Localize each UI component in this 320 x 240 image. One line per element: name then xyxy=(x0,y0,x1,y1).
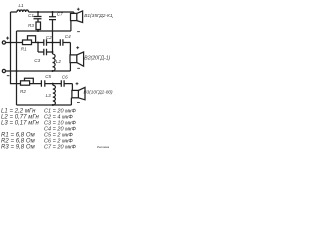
wire top rail xyxy=(11,12,74,13)
junction dots xyxy=(10,11,54,106)
svg-text:L3: L3 xyxy=(46,93,52,98)
svg-text:R2: R2 xyxy=(20,89,26,94)
svg-text:С2: С2 xyxy=(46,35,52,40)
wire B2 return riser xyxy=(69,63,71,71)
resistor R3 xyxy=(36,22,41,31)
capacitor C6 xyxy=(61,80,64,87)
speaker B2 xyxy=(70,46,84,68)
svg-text:С4: С4 xyxy=(65,34,71,39)
inductor L2 xyxy=(53,54,56,71)
svg-text:С7 = 20 мкФ: С7 = 20 мкФ xyxy=(44,145,77,151)
wire bottom return line xyxy=(17,98,72,105)
inductor L1 xyxy=(17,10,29,12)
resistor R1 with tap xyxy=(23,36,36,45)
node plus input terminal xyxy=(2,37,22,45)
capacitor C3 xyxy=(44,49,47,55)
svg-text:С5: С5 xyxy=(45,74,51,79)
speaker B1 xyxy=(71,8,83,32)
svg-text:С7: С7 xyxy=(57,11,63,16)
svg-text:В3(10ГД2-80): В3(10ГД2-80) xyxy=(84,89,114,94)
svg-text:L3 = 0,17 мГн: L3 = 0,17 мГн xyxy=(1,121,39,127)
wire C3 branch xyxy=(38,43,53,53)
capacitor C4 xyxy=(60,39,63,45)
speaker B3 xyxy=(72,82,85,102)
svg-text:Реклама: Реклама xyxy=(97,145,109,149)
value list right column xyxy=(44,109,77,151)
resistor R2 with tap xyxy=(21,78,34,85)
wire mid return line y31 xyxy=(17,30,71,32)
value list left column xyxy=(1,109,39,151)
wire left riser from plus to top rail and down to tweeter row xyxy=(11,12,21,84)
svg-text:R3 = 9,8 Ом: R3 = 9,8 Ом xyxy=(1,145,36,151)
capacitor C1 xyxy=(34,12,42,22)
capacitor C7 xyxy=(49,12,56,43)
node minus input terminal xyxy=(2,69,70,75)
svg-text:R1: R1 xyxy=(21,46,27,51)
wire x52.5 vertical from C7 junction to L2 xyxy=(52,43,54,55)
svg-text:L1: L1 xyxy=(19,3,25,8)
svg-text:В1(35ГД2-К1): В1(35ГД2-К1) xyxy=(84,13,113,19)
svg-text:В2(20ГД-1): В2(20ГД-1) xyxy=(84,56,110,62)
svg-text:R3: R3 xyxy=(28,23,34,28)
wire tweeter row xyxy=(30,84,73,91)
svg-text:L2: L2 xyxy=(56,59,62,64)
wire minus bus vertical x16.5 xyxy=(16,31,18,105)
capacitor C5 xyxy=(41,80,44,87)
inductor L3 xyxy=(53,84,56,105)
capacitor C2 xyxy=(44,39,47,45)
svg-text:С1: С1 xyxy=(28,13,34,18)
wire midrange row xyxy=(32,43,71,55)
svg-text:С3: С3 xyxy=(34,58,40,63)
svg-text:С6: С6 xyxy=(62,75,68,80)
